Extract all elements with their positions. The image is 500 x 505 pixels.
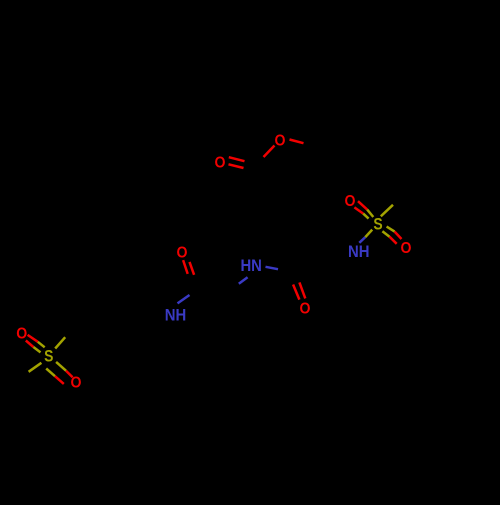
wire O1-C carbonyl (O half) xyxy=(264,146,275,158)
svg-text:O: O xyxy=(71,375,82,392)
wire C=O3 double bond line b xyxy=(299,282,305,298)
wire N3-S1 (S half yellow) xyxy=(365,230,372,238)
svg-text:O: O xyxy=(275,132,286,149)
wire S2=O8 line b (S half yellow) xyxy=(46,369,55,377)
wire S2-CH2 chain up-right (S half) xyxy=(55,337,65,348)
wire S1=O5 line b (O half red) xyxy=(354,207,363,213)
svg-text:O: O xyxy=(345,193,356,210)
wire C=O2 double bond line a xyxy=(229,157,245,161)
wire S1=O6 line b (S half yellow) xyxy=(382,231,389,237)
wire N3-S1 (N half blue) xyxy=(359,237,365,243)
wire S2=O7 line a (S half yellow) xyxy=(38,342,45,348)
svg-text:NH: NH xyxy=(165,306,187,324)
svg-text:NH: NH xyxy=(348,243,370,261)
wire S1=O5 line a (O half red) xyxy=(358,201,367,209)
svg-text:O: O xyxy=(177,245,188,262)
svg-text:O: O xyxy=(16,326,27,343)
svg-text:S: S xyxy=(44,348,53,366)
wire S1=O6 line b (O half red) xyxy=(390,237,397,244)
svg-text:S: S xyxy=(373,215,382,233)
wire S2=O8 line a (O half red) xyxy=(66,371,73,378)
wire C=O3 double bond line a xyxy=(293,285,299,300)
wire S2=O7 line b (S half yellow) xyxy=(33,347,40,352)
wire S1=O5 line a (S half yellow) xyxy=(367,210,373,217)
wire C=O4 double bond line a xyxy=(183,260,188,274)
wire N1-CH down-left (N half) xyxy=(239,277,248,284)
wire C=O2 double bond line b xyxy=(229,164,244,168)
wire S1=O6 line a (S half yellow) xyxy=(387,227,395,232)
wire S2=O7 line a (O half red) xyxy=(28,335,38,342)
svg-text:O: O xyxy=(401,240,412,257)
wire S2=O8 line b (O half red) xyxy=(55,376,64,384)
wire S1=O6 line a (O half red) xyxy=(395,232,402,239)
wire S1=O5 line b (S half yellow) xyxy=(363,214,368,219)
svg-text:O: O xyxy=(300,300,311,317)
wire N2-C up-right (N half) xyxy=(178,295,190,303)
wire S2=O8 line a (S half yellow) xyxy=(56,362,66,371)
wire N1-C right (N half) xyxy=(266,267,279,269)
wire S2-CH3 down-left (S half) xyxy=(29,363,42,372)
svg-text:HN: HN xyxy=(240,257,262,275)
wire O1-CH3 (O half) xyxy=(290,140,304,144)
svg-text:O: O xyxy=(215,154,226,171)
wire S1-CH3 (S half) xyxy=(381,205,393,217)
wire S2=O7 line b (O half red) xyxy=(26,341,34,348)
wire C=O4 double bond line b xyxy=(190,262,195,275)
